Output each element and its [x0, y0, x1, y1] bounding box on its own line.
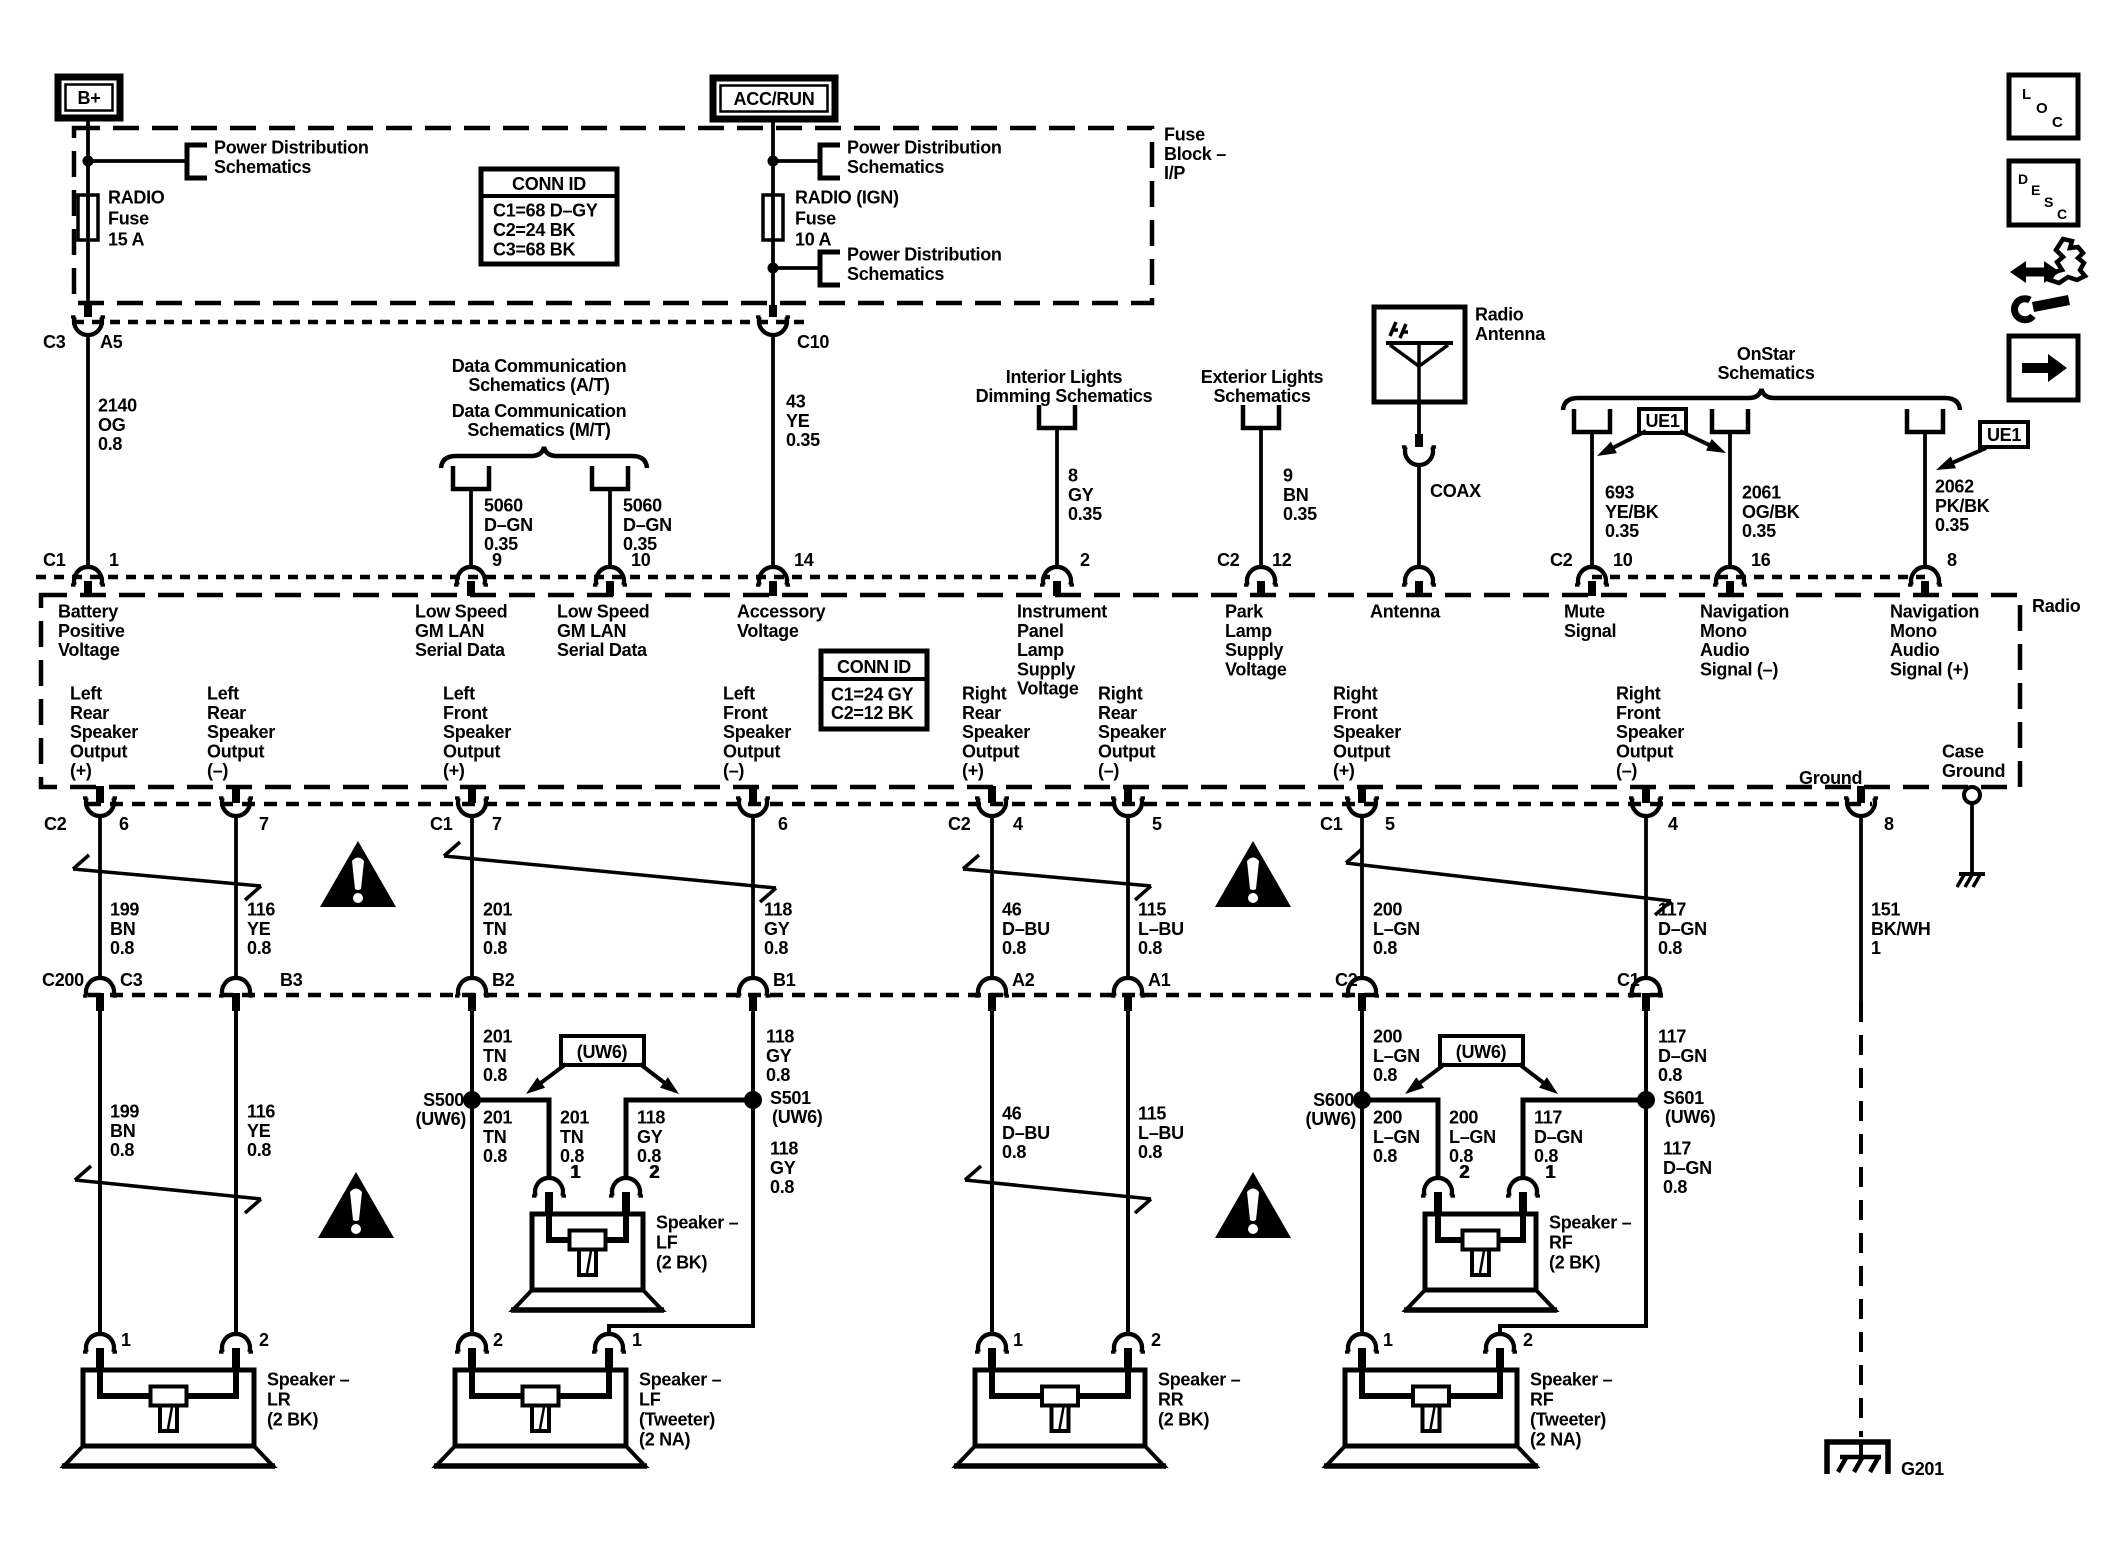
wire LAN 2	[608, 489, 612, 566]
svg-text:0.8: 0.8	[766, 1065, 790, 1085]
svg-text:Navigation: Navigation	[1700, 602, 1789, 622]
svg-text:Output: Output	[723, 741, 780, 761]
svg-text:201: 201	[483, 1108, 512, 1128]
speaker LF tweeter (2 NA)	[455, 1370, 626, 1446]
warning triangle lower left	[318, 1172, 394, 1238]
svg-text:C2=12 BK: C2=12 BK	[831, 703, 913, 723]
svg-text:0.35: 0.35	[1935, 515, 1969, 535]
connector pin 1	[74, 567, 102, 585]
svg-text:4: 4	[1013, 814, 1023, 834]
C200 pin C2	[1348, 978, 1376, 996]
svg-text:L–BU: L–BU	[1138, 919, 1184, 939]
svg-text:0.8: 0.8	[1373, 938, 1397, 958]
svg-text:200: 200	[1373, 1108, 1402, 1128]
svg-text:Output: Output	[70, 741, 127, 761]
Fuse Block - I/P dashed outline	[74, 128, 1152, 303]
fuse RADIO 15 A	[86, 196, 90, 240]
svg-text:200: 200	[1373, 900, 1402, 920]
svg-text:2: 2	[493, 1330, 503, 1350]
jump/wrench icon	[2010, 261, 2060, 283]
svg-text:Case: Case	[1942, 742, 1984, 762]
svg-text:GY: GY	[1068, 485, 1094, 505]
ground G201 symbol	[1827, 1442, 1888, 1474]
svg-text:0.35: 0.35	[1283, 504, 1317, 524]
OnStar link bracket nav minus	[1712, 409, 1748, 432]
twisted pair marks lower	[75, 1180, 261, 1199]
svg-text:E: E	[2031, 182, 2040, 198]
svg-text:YE: YE	[247, 919, 271, 939]
svg-text:4: 4	[1668, 814, 1678, 834]
svg-text:201: 201	[560, 1108, 589, 1128]
case ground chassis symbol	[1959, 872, 1985, 876]
svg-text:Low Speed: Low Speed	[557, 602, 649, 622]
svg-text:Left: Left	[207, 684, 239, 704]
svg-text:0.8: 0.8	[1373, 1065, 1397, 1085]
svg-text:1: 1	[632, 1330, 642, 1350]
LOC icon	[2009, 75, 2078, 138]
svg-text:C1: C1	[1617, 970, 1640, 990]
svg-text:(2 NA): (2 NA)	[639, 1430, 691, 1450]
svg-text:9: 9	[1283, 466, 1293, 486]
connector C1 pin 5	[1358, 786, 1366, 803]
wire S601 to tweeter pin 2 (elbow)	[1500, 1100, 1646, 1334]
svg-text:Voltage: Voltage	[1225, 659, 1287, 679]
svg-text:693: 693	[1605, 483, 1634, 503]
svg-text:D–BU: D–BU	[1002, 919, 1050, 939]
connector C1 pin 7	[468, 786, 476, 803]
svg-text:Ground: Ground	[1799, 768, 1862, 788]
svg-text:Park: Park	[1225, 602, 1264, 622]
svg-text:Voltage: Voltage	[737, 621, 799, 641]
svg-text:L–GN: L–GN	[1449, 1127, 1496, 1147]
svg-text:Schematics: Schematics	[214, 157, 311, 177]
svg-text:RF: RF	[1549, 1233, 1573, 1253]
svg-text:Radio: Radio	[2032, 596, 2081, 616]
svg-text:10: 10	[631, 550, 651, 570]
splice S601	[1637, 1091, 1655, 1109]
svg-text:Speaker: Speaker	[723, 722, 791, 742]
svg-text:GY: GY	[637, 1127, 663, 1147]
svg-text:1: 1	[1871, 938, 1881, 958]
svg-text:2140: 2140	[98, 396, 137, 416]
svg-text:6: 6	[119, 814, 129, 834]
svg-text:Speaker –: Speaker –	[639, 1370, 722, 1390]
svg-text:199: 199	[110, 1102, 139, 1122]
svg-text:Navigation: Navigation	[1890, 602, 1979, 622]
svg-text:151: 151	[1871, 900, 1900, 920]
svg-text:D–GN: D–GN	[623, 515, 672, 535]
svg-text:Rear: Rear	[1098, 703, 1137, 723]
svg-text:(2 BK): (2 BK)	[267, 1410, 319, 1430]
svg-text:117: 117	[1658, 1027, 1686, 1047]
svg-text:Rear: Rear	[70, 703, 109, 723]
wire LAN 1	[469, 489, 473, 566]
ground wire shown dashed	[1859, 1002, 1863, 1437]
radio bottom connector row (dotted)	[88, 802, 1872, 807]
svg-text:8: 8	[1068, 466, 1078, 486]
svg-text:Data Communication: Data Communication	[452, 401, 627, 421]
junction node on B+ feed	[83, 156, 94, 167]
wire 201 TN to S500	[470, 1011, 474, 1100]
svg-text:C10: C10	[797, 332, 829, 352]
svg-text:(2 NA): (2 NA)	[1530, 1430, 1582, 1450]
OnStar link bracket nav plus	[1907, 409, 1943, 432]
UE1 arrows	[1612, 431, 1646, 448]
(UW6) tag left	[561, 1036, 644, 1065]
svg-text:5: 5	[1152, 814, 1162, 834]
svg-text:116: 116	[247, 900, 275, 920]
svg-text:15 A: 15 A	[108, 230, 144, 250]
connector pin 8 (ground)	[1857, 786, 1865, 803]
svg-text:Fuse: Fuse	[795, 209, 836, 229]
svg-text:C3=68 BK: C3=68 BK	[493, 240, 575, 260]
connector C10	[769, 305, 777, 317]
wire 2061 OG/BK	[1728, 432, 1732, 566]
svg-text:115: 115	[1138, 1104, 1166, 1124]
wire 117 D-GN to S601	[1644, 1011, 1648, 1100]
svg-text:(Tweeter): (Tweeter)	[1530, 1410, 1606, 1430]
svg-text:(UW6): (UW6)	[1456, 1042, 1507, 1062]
svg-text:Voltage: Voltage	[58, 640, 120, 660]
wire 693 YE/BK	[1590, 432, 1594, 566]
svg-text:I/P: I/P	[1164, 163, 1185, 183]
wire S500 down to tweeter	[470, 1100, 474, 1334]
svg-text:Front: Front	[723, 703, 768, 723]
svg-text:B2: B2	[492, 970, 515, 990]
svg-text:TN: TN	[560, 1127, 583, 1147]
svg-text:Lamp: Lamp	[1017, 640, 1064, 660]
svg-text:Fuse: Fuse	[1164, 125, 1205, 145]
svg-text:Antenna: Antenna	[1370, 602, 1441, 622]
svg-text:LR: LR	[267, 1390, 291, 1410]
power distribution schematics bracket (left)	[187, 145, 207, 178]
power distribution schematics bracket (lower right)	[820, 252, 840, 285]
svg-text:TN: TN	[483, 1127, 506, 1147]
C200 pin C3	[86, 978, 114, 996]
connector pin 16	[1716, 567, 1744, 585]
svg-text:5060: 5060	[623, 496, 662, 516]
OnStar link bracket mute	[1574, 409, 1610, 432]
svg-text:C1: C1	[1320, 814, 1343, 834]
svg-text:RADIO (IGN): RADIO (IGN)	[795, 188, 899, 208]
svg-text:C2: C2	[948, 814, 971, 834]
UE1 arrow 2	[1952, 448, 1986, 463]
svg-text:118: 118	[766, 1027, 794, 1047]
svg-text:12: 12	[1272, 550, 1292, 570]
svg-text:0.8: 0.8	[1373, 1146, 1397, 1166]
svg-text:(–): (–)	[1616, 761, 1637, 781]
svg-text:C: C	[2057, 206, 2067, 222]
wires C200 to speakers	[98, 1011, 102, 1334]
svg-text:0.8: 0.8	[770, 1177, 794, 1197]
svg-text:0.8: 0.8	[110, 938, 134, 958]
svg-text:46: 46	[1002, 900, 1022, 920]
svg-text:Schematics (A/T): Schematics (A/T)	[468, 375, 610, 395]
svg-text:Output: Output	[1333, 741, 1390, 761]
svg-text:5: 5	[1385, 814, 1395, 834]
svg-text:Speaker –: Speaker –	[267, 1370, 350, 1390]
svg-text:115: 115	[1138, 900, 1166, 920]
svg-text:Mono: Mono	[1890, 621, 1937, 641]
connector C2 pin 6	[96, 786, 104, 803]
radio dashed outline	[41, 595, 2020, 787]
svg-text:LF: LF	[639, 1390, 661, 1410]
svg-text:Mute: Mute	[1564, 602, 1605, 622]
svg-text:7: 7	[259, 814, 269, 834]
svg-text:D–GN: D–GN	[484, 515, 533, 535]
svg-text:OG/BK: OG/BK	[1742, 502, 1800, 522]
C200 pin C1	[1632, 978, 1660, 996]
svg-text:Schematics (M/T): Schematics (M/T)	[467, 420, 611, 440]
interior lights link bracket	[1039, 405, 1075, 428]
speaker LF (2 BK)	[532, 1214, 643, 1290]
svg-text:C2: C2	[1550, 550, 1573, 570]
svg-text:C2: C2	[1217, 550, 1240, 570]
svg-text:0.8: 0.8	[1002, 1142, 1026, 1162]
svg-text:Ground: Ground	[1942, 761, 2005, 781]
svg-text:OnStar: OnStar	[1737, 344, 1796, 364]
svg-text:Power Distribution: Power Distribution	[847, 245, 1002, 265]
svg-text:0.8: 0.8	[247, 938, 271, 958]
connector pin 2	[1043, 567, 1071, 585]
svg-text:118: 118	[764, 900, 792, 920]
antenna symbol	[1417, 343, 1421, 402]
svg-text:S500: S500	[423, 1090, 464, 1110]
svg-text:Speaker: Speaker	[207, 722, 275, 742]
svg-text:Exterior Lights: Exterior Lights	[1201, 367, 1324, 387]
radio connector C1 row (dotted)	[36, 575, 1050, 580]
svg-text:O: O	[2036, 100, 2048, 117]
svg-text:118: 118	[770, 1139, 798, 1159]
svg-text:2: 2	[259, 1330, 269, 1350]
svg-text:(+): (+)	[1333, 761, 1355, 781]
svg-text:C3: C3	[43, 332, 66, 352]
svg-text:(2 BK): (2 BK)	[1549, 1253, 1601, 1273]
svg-text:Speaker: Speaker	[1098, 722, 1166, 742]
svg-text:(Tweeter): (Tweeter)	[639, 1410, 715, 1430]
svg-text:D–GN: D–GN	[1658, 919, 1707, 939]
connector C200 row (dotted)	[88, 993, 1664, 998]
svg-text:117: 117	[1658, 900, 1686, 920]
svg-text:16: 16	[1751, 550, 1771, 570]
B+ terminal box	[58, 77, 120, 118]
splice bus S500-S501 with speaker taps	[472, 1100, 753, 1179]
svg-text:1: 1	[109, 550, 119, 570]
svg-text:2061: 2061	[1742, 483, 1781, 503]
svg-text:S501: S501	[770, 1088, 811, 1108]
svg-text:Speaker –: Speaker –	[1158, 1370, 1241, 1390]
svg-text:YE: YE	[247, 1121, 271, 1141]
C200 pin B2	[458, 978, 486, 996]
LAN link bracket 2	[592, 466, 628, 489]
(UW6) tag right	[1440, 1036, 1523, 1065]
svg-text:Fuse: Fuse	[108, 209, 149, 229]
connector C2 pin 4	[988, 786, 996, 803]
wire 118 GY to S501	[751, 1011, 755, 1100]
svg-text:CONN ID: CONN ID	[837, 657, 911, 677]
svg-text:UE1: UE1	[1645, 411, 1679, 431]
svg-text:OG: OG	[98, 415, 125, 435]
connector pin 14	[759, 567, 787, 585]
svg-text:Serial Data: Serial Data	[415, 640, 506, 660]
LAN link bracket 1	[453, 466, 489, 489]
svg-text:Schematics: Schematics	[1213, 386, 1310, 406]
svg-text:Power Distribution: Power Distribution	[214, 138, 369, 158]
UW6 arrows	[540, 1064, 566, 1084]
svg-text:1: 1	[570, 1162, 580, 1182]
wire to power distribution schematics (upper right)	[773, 159, 820, 163]
svg-text:Signal: Signal	[1564, 621, 1616, 641]
svg-text:0.8: 0.8	[1663, 1177, 1687, 1197]
fuse RADIO (IGN) 10 A	[771, 196, 775, 240]
svg-text:0.8: 0.8	[1138, 1142, 1162, 1162]
svg-text:D: D	[2018, 171, 2028, 187]
C200 pin A1	[1114, 978, 1142, 996]
svg-text:D–GN: D–GN	[1658, 1046, 1707, 1066]
svg-text:CONN ID: CONN ID	[512, 174, 586, 194]
C200 pin A2	[978, 978, 1006, 996]
svg-text:ACC/RUN: ACC/RUN	[734, 89, 815, 109]
svg-text:Mono: Mono	[1700, 621, 1747, 641]
svg-text:Signal (–): Signal (–)	[1700, 659, 1778, 679]
svg-text:46: 46	[1002, 1104, 1022, 1124]
svg-text:10 A: 10 A	[795, 230, 831, 250]
svg-text:Speaker: Speaker	[962, 722, 1030, 742]
CONN ID table (fuse block)	[481, 169, 617, 264]
svg-text:Instrument: Instrument	[1017, 602, 1107, 622]
CONN ID table (radio)	[821, 651, 927, 729]
svg-text:0.8: 0.8	[764, 938, 788, 958]
svg-text:Output: Output	[1616, 741, 1673, 761]
svg-text:B+: B+	[78, 88, 101, 108]
svg-text:1: 1	[1546, 1162, 1556, 1182]
svg-text:Supply: Supply	[1017, 659, 1075, 679]
svg-text:C200: C200	[42, 970, 84, 990]
svg-text:UE1: UE1	[1987, 425, 2021, 445]
warning triangle lower right	[1215, 1172, 1291, 1238]
svg-text:Left: Left	[443, 684, 475, 704]
speaker LR (2 BK)	[83, 1370, 254, 1446]
svg-text:D–GN: D–GN	[1663, 1158, 1712, 1178]
svg-text:Right: Right	[1098, 684, 1143, 704]
svg-text:(UW6): (UW6)	[416, 1109, 467, 1129]
speaker RF (2 BK)	[1425, 1214, 1536, 1290]
case ground terminal	[1964, 787, 1980, 803]
svg-text:Antenna: Antenna	[1475, 324, 1546, 344]
svg-text:0.35: 0.35	[786, 430, 820, 450]
DESC icon	[2009, 161, 2078, 225]
svg-text:1: 1	[121, 1330, 131, 1350]
svg-text:201: 201	[483, 1027, 512, 1047]
svg-text:C: C	[2052, 114, 2063, 131]
svg-text:(–): (–)	[1098, 761, 1119, 781]
svg-text:2: 2	[1523, 1330, 1533, 1350]
svg-text:2: 2	[1459, 1162, 1469, 1182]
connector antenna	[1405, 567, 1433, 585]
svg-text:(+): (+)	[70, 761, 92, 781]
twisted pair marks upper	[73, 869, 261, 886]
svg-text:YE/BK: YE/BK	[1605, 502, 1659, 522]
svg-text:RR: RR	[1158, 1390, 1184, 1410]
splice S500	[463, 1091, 481, 1109]
svg-text:0.35: 0.35	[1742, 521, 1776, 541]
svg-text:116: 116	[247, 1102, 275, 1122]
svg-text:Speaker: Speaker	[1333, 722, 1401, 742]
svg-text:7: 7	[492, 814, 502, 834]
svg-text:Front: Front	[1616, 703, 1661, 723]
wire fuse to junction lower	[771, 240, 775, 306]
svg-text:Accessory: Accessory	[737, 602, 826, 622]
svg-text:Right: Right	[1616, 684, 1661, 704]
svg-text:Dimming Schematics: Dimming Schematics	[976, 386, 1153, 406]
svg-text:Audio: Audio	[1700, 640, 1750, 660]
splice S600	[1353, 1091, 1371, 1109]
svg-text:Supply: Supply	[1225, 640, 1283, 660]
svg-text:L: L	[2022, 86, 2031, 103]
connector pin 5	[1124, 786, 1132, 803]
svg-text:9: 9	[492, 550, 502, 570]
svg-text:0.8: 0.8	[483, 938, 507, 958]
svg-text:L–GN: L–GN	[1373, 1127, 1420, 1147]
connector line C3/A5 C10 (dotted)	[74, 320, 810, 325]
svg-text:6: 6	[778, 814, 788, 834]
UE1 tag 1	[1639, 409, 1686, 433]
svg-text:0.8: 0.8	[1658, 1065, 1682, 1085]
svg-text:Rear: Rear	[207, 703, 246, 723]
svg-text:A5: A5	[100, 332, 123, 352]
svg-text:GY: GY	[764, 919, 790, 939]
svg-text:LF: LF	[656, 1233, 678, 1253]
svg-text:Lamp: Lamp	[1225, 621, 1272, 641]
ground wire 151	[1859, 816, 1863, 1002]
svg-text:B3: B3	[280, 970, 303, 990]
svg-text:Output: Output	[962, 741, 1019, 761]
svg-text:Voltage: Voltage	[1017, 679, 1079, 699]
svg-text:117: 117	[1534, 1108, 1562, 1128]
svg-text:2: 2	[649, 1162, 659, 1182]
svg-text:Serial Data: Serial Data	[557, 640, 648, 660]
svg-text:L–GN: L–GN	[1373, 1046, 1420, 1066]
svg-text:Schematics: Schematics	[1717, 363, 1814, 383]
ACC/RUN terminal box	[713, 78, 835, 119]
connector pin 9	[457, 567, 485, 585]
svg-text:Audio: Audio	[1890, 640, 1940, 660]
svg-text:(–): (–)	[723, 761, 744, 781]
wire to power distribution schematics (lower right)	[773, 266, 820, 270]
svg-text:0.8: 0.8	[483, 1065, 507, 1085]
svg-text:G201: G201	[1901, 1459, 1944, 1479]
svg-text:14: 14	[794, 550, 814, 570]
wire to power distribution schematics (left)	[88, 159, 187, 163]
svg-text:Rear: Rear	[962, 703, 1001, 723]
connector pin 8	[1911, 567, 1939, 585]
svg-text:PK/BK: PK/BK	[1935, 496, 1990, 516]
wire B+ to fuse	[86, 117, 90, 196]
svg-text:Output: Output	[443, 741, 500, 761]
svg-text:Left: Left	[723, 684, 755, 704]
svg-text:TN: TN	[483, 1046, 506, 1066]
svg-text:Power Distribution: Power Distribution	[847, 138, 1002, 158]
svg-text:C1=24 GY: C1=24 GY	[831, 685, 913, 705]
svg-text:2: 2	[1151, 1330, 1161, 1350]
svg-text:D–GN: D–GN	[1534, 1127, 1583, 1147]
svg-text:COAX: COAX	[1430, 481, 1481, 501]
svg-text:Block –: Block –	[1164, 144, 1226, 164]
wire S501 to tweeter pin 1 (elbow)	[609, 1100, 753, 1334]
svg-text:0.8: 0.8	[247, 1140, 271, 1160]
svg-text:0.8: 0.8	[110, 1140, 134, 1160]
svg-text:TN: TN	[483, 919, 506, 939]
